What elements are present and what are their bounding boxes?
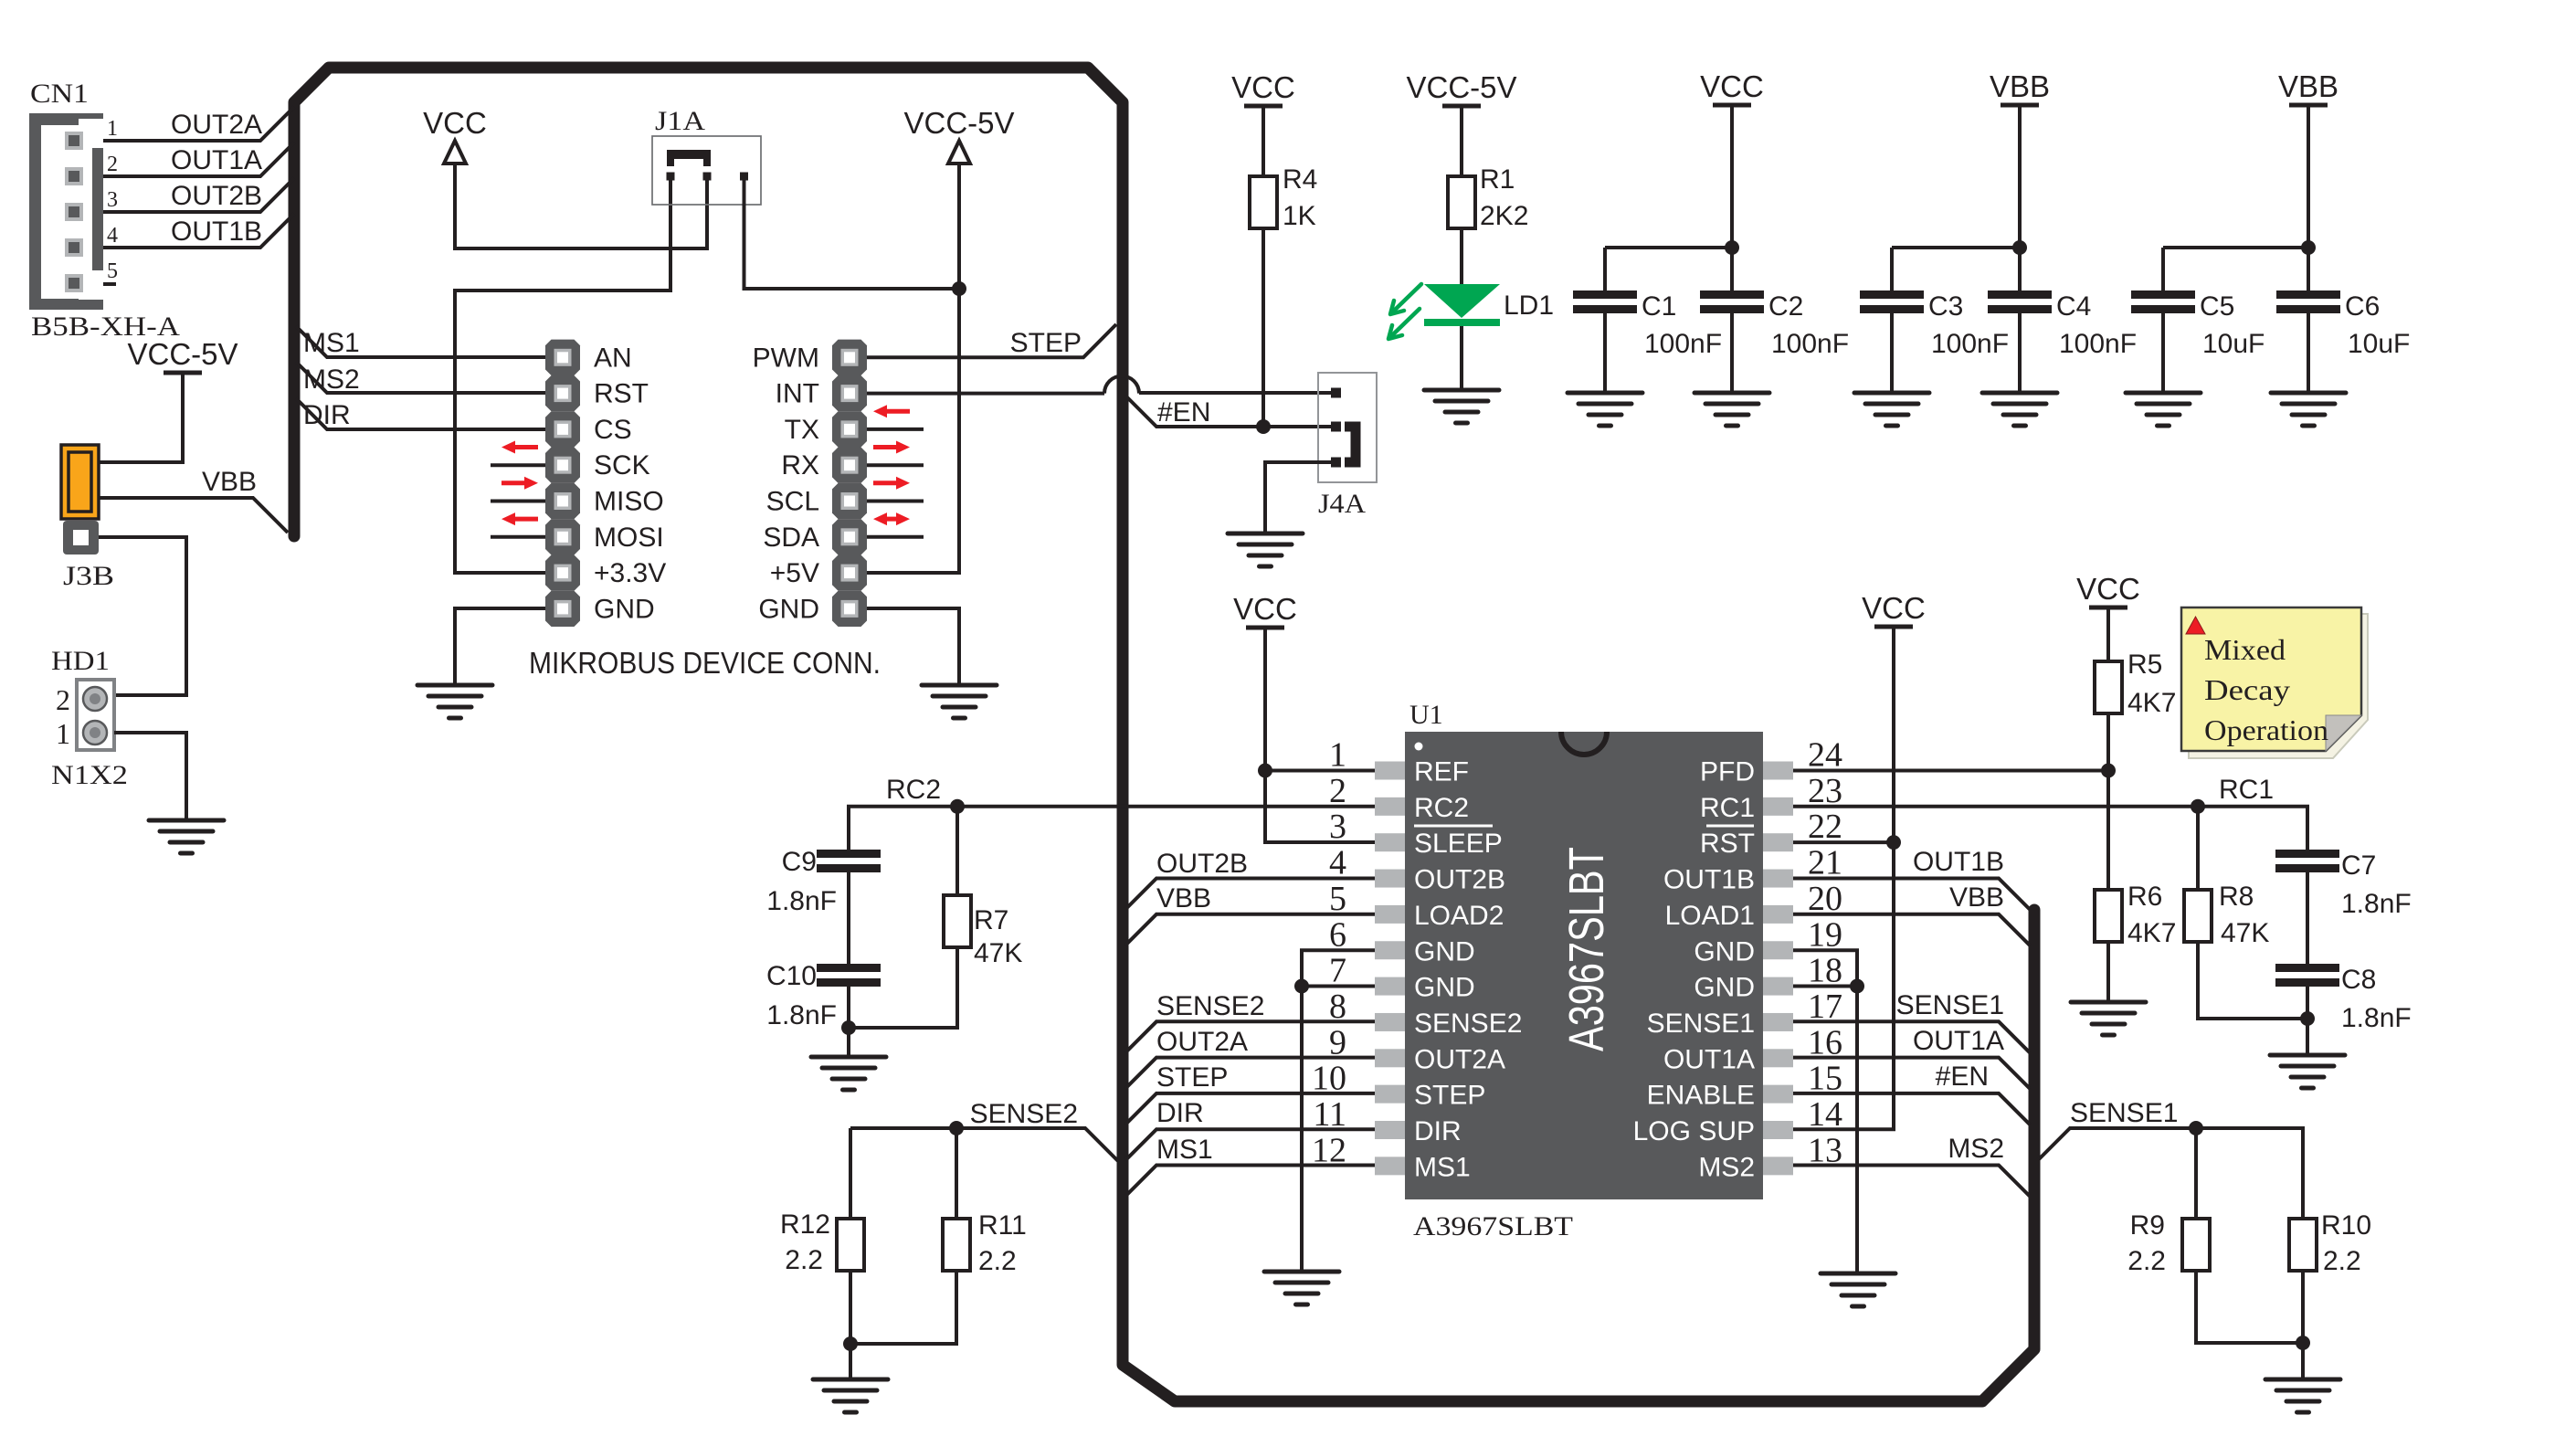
svg-text:RC2: RC2: [886, 775, 941, 805]
svg-text:SCK: SCK: [594, 450, 650, 481]
svg-text:A3967SLBT: A3967SLBT: [1413, 1211, 1573, 1241]
svg-text:OUT2B: OUT2B: [171, 181, 262, 211]
svg-text:R9: R9: [2130, 1210, 2165, 1241]
svg-text:RST: RST: [1700, 829, 1755, 859]
svg-text:HD1: HD1: [51, 646, 110, 676]
svg-text:10uF: 10uF: [2348, 329, 2410, 359]
svg-text:GND: GND: [594, 594, 655, 624]
svg-text:VBB: VBB: [2278, 69, 2338, 103]
svg-text:RST: RST: [594, 379, 649, 409]
svg-text:GND: GND: [1414, 936, 1475, 966]
svg-text:3: 3: [1329, 808, 1346, 846]
svg-text:OUT2A: OUT2A: [171, 110, 262, 140]
svg-text:LD1: LD1: [1504, 290, 1554, 321]
svg-text:J1A: J1A: [655, 106, 705, 136]
svg-text:4: 4: [107, 224, 118, 248]
svg-text:SENSE1: SENSE1: [1896, 990, 2004, 1020]
svg-text:REF: REF: [1414, 757, 1469, 787]
svg-text:VCC: VCC: [1862, 591, 1926, 625]
svg-text:19: 19: [1808, 915, 1842, 954]
svg-text:#EN: #EN: [1936, 1061, 1989, 1092]
svg-text:MS2: MS2: [1948, 1134, 2004, 1164]
svg-text:MS1: MS1: [1156, 1135, 1213, 1165]
svg-text:RX: RX: [781, 450, 819, 481]
svg-text:MS1: MS1: [303, 328, 360, 358]
svg-text:TX: TX: [785, 415, 819, 445]
svg-text:GND: GND: [1694, 973, 1755, 1003]
svg-text:2: 2: [56, 683, 70, 716]
svg-text:MS2: MS2: [1698, 1152, 1755, 1182]
svg-text:SENSE2: SENSE2: [1156, 991, 1264, 1021]
svg-text:OUT2B: OUT2B: [1156, 849, 1248, 879]
svg-text:OUT2A: OUT2A: [1156, 1027, 1248, 1057]
svg-text:J3B: J3B: [63, 561, 114, 591]
svg-text:#EN: #EN: [1157, 397, 1210, 428]
svg-text:C8: C8: [2341, 965, 2376, 995]
svg-text:R1: R1: [1480, 164, 1515, 195]
svg-text:CN1: CN1: [30, 79, 89, 109]
svg-text:100nF: 100nF: [1931, 329, 2009, 359]
svg-text:SENSE1: SENSE1: [2070, 1098, 2178, 1128]
svg-text:LOG SUP: LOG SUP: [1633, 1116, 1755, 1146]
svg-text:C6: C6: [2345, 291, 2380, 322]
svg-text:6: 6: [1329, 915, 1346, 954]
svg-text:R12: R12: [780, 1209, 830, 1240]
svg-text:R5: R5: [2127, 650, 2162, 680]
svg-text:100nF: 100nF: [1644, 329, 1722, 359]
svg-text:4K7: 4K7: [2127, 918, 2176, 948]
svg-text:GND: GND: [1694, 936, 1755, 966]
svg-text:CS: CS: [594, 415, 632, 445]
svg-text:STEP: STEP: [1156, 1062, 1228, 1093]
svg-text:GND: GND: [758, 594, 819, 624]
svg-text:OUT1B: OUT1B: [1663, 865, 1755, 895]
svg-text:2: 2: [1329, 772, 1346, 810]
svg-text:Mixed: Mixed: [2204, 633, 2286, 666]
svg-text:1: 1: [107, 117, 118, 141]
svg-text:VBB: VBB: [202, 467, 257, 497]
svg-text:+5V: +5V: [770, 558, 819, 588]
svg-text:STEP: STEP: [1414, 1081, 1485, 1111]
svg-text:1.8nF: 1.8nF: [766, 1000, 837, 1030]
svg-text:2.2: 2.2: [2323, 1246, 2361, 1276]
svg-text:100nF: 100nF: [2059, 329, 2137, 359]
svg-text:SCL: SCL: [766, 487, 819, 517]
svg-text:GND: GND: [1414, 973, 1475, 1003]
svg-text:Decay: Decay: [2204, 673, 2290, 706]
svg-text:SENSE1: SENSE1: [1647, 1009, 1755, 1039]
svg-text:MISO: MISO: [594, 487, 664, 517]
svg-text:2K2: 2K2: [1480, 201, 1528, 231]
svg-text:RC1: RC1: [2219, 775, 2274, 805]
svg-text:PWM: PWM: [753, 343, 819, 373]
svg-text:4: 4: [1329, 844, 1346, 882]
svg-text:LOAD1: LOAD1: [1665, 901, 1755, 931]
svg-text:2.2: 2.2: [785, 1245, 823, 1275]
svg-text:4K7: 4K7: [2127, 688, 2176, 718]
svg-text:DIR: DIR: [1414, 1116, 1462, 1146]
svg-text:PFD: PFD: [1700, 757, 1755, 787]
svg-text:ENABLE: ENABLE: [1647, 1081, 1755, 1111]
svg-text:SLEEP: SLEEP: [1414, 829, 1503, 859]
svg-text:VCC-5V: VCC-5V: [1406, 70, 1516, 104]
svg-text:24: 24: [1808, 736, 1842, 775]
svg-text:C4: C4: [2056, 291, 2091, 322]
svg-text:2.2: 2.2: [2127, 1246, 2166, 1276]
svg-text:SDA: SDA: [763, 523, 819, 553]
svg-text:VCC-5V: VCC-5V: [127, 337, 238, 371]
svg-text:C9: C9: [782, 847, 817, 877]
svg-text:20: 20: [1808, 880, 1842, 918]
svg-text:100nF: 100nF: [1771, 329, 1849, 359]
svg-text:DIR: DIR: [1156, 1098, 1204, 1128]
svg-text:OUT1A: OUT1A: [1663, 1044, 1755, 1074]
svg-text:MIKROBUS DEVICE CONN.: MIKROBUS DEVICE CONN.: [529, 646, 881, 680]
svg-text:SENSE2: SENSE2: [1414, 1009, 1522, 1039]
svg-text:R10: R10: [2321, 1210, 2371, 1241]
svg-text:INT: INT: [776, 379, 819, 409]
svg-text:10uF: 10uF: [2202, 329, 2265, 359]
svg-text:MS2: MS2: [303, 364, 360, 395]
svg-text:C1: C1: [1642, 291, 1676, 322]
svg-text:C5: C5: [2200, 291, 2234, 322]
svg-text:2: 2: [107, 153, 118, 176]
svg-text:VCC: VCC: [1231, 70, 1295, 104]
svg-text:OUT1B: OUT1B: [171, 217, 262, 247]
svg-text:OUT2A: OUT2A: [1414, 1044, 1505, 1074]
svg-text:VCC: VCC: [423, 106, 487, 140]
svg-text:VCC: VCC: [2076, 572, 2140, 606]
svg-text:21: 21: [1808, 844, 1842, 882]
svg-text:AN: AN: [594, 343, 632, 373]
svg-text:VCC: VCC: [1233, 592, 1297, 626]
svg-text:SENSE2: SENSE2: [970, 1099, 1078, 1129]
svg-text:5: 5: [1329, 880, 1346, 918]
svg-text:C3: C3: [1928, 291, 1963, 322]
svg-text:VCC-5V: VCC-5V: [903, 106, 1014, 140]
svg-text:U1: U1: [1409, 700, 1443, 730]
svg-text:VBB: VBB: [1949, 882, 2004, 913]
svg-text:RC2: RC2: [1414, 793, 1469, 823]
svg-text:VBB: VBB: [1990, 69, 2050, 103]
svg-text:3: 3: [107, 188, 118, 212]
svg-text:C10: C10: [766, 961, 817, 991]
svg-text:VBB: VBB: [1156, 883, 1211, 914]
svg-text:R6: R6: [2127, 882, 2162, 912]
svg-text:47K: 47K: [2221, 918, 2269, 948]
svg-text:2.2: 2.2: [978, 1246, 1017, 1276]
svg-text:1K: 1K: [1283, 201, 1316, 231]
svg-text:OUT1B: OUT1B: [1913, 847, 2004, 877]
svg-text:22: 22: [1808, 808, 1842, 846]
svg-text:7: 7: [1329, 952, 1346, 990]
svg-text:DIR: DIR: [303, 400, 351, 430]
svg-text:R8: R8: [2219, 882, 2254, 912]
svg-text:23: 23: [1808, 772, 1842, 810]
svg-text:1.8nF: 1.8nF: [2341, 889, 2412, 919]
svg-text:47K: 47K: [974, 938, 1022, 968]
svg-text:C2: C2: [1768, 291, 1803, 322]
svg-text:1: 1: [56, 717, 70, 750]
svg-text:J4A: J4A: [1318, 489, 1366, 519]
svg-text:VCC: VCC: [1700, 69, 1764, 103]
svg-text:A3967SLBT: A3967SLBT: [1559, 847, 1614, 1051]
svg-text:5: 5: [107, 259, 118, 283]
svg-text:C7: C7: [2341, 850, 2376, 881]
svg-text:LOAD2: LOAD2: [1414, 901, 1504, 931]
svg-text:R11: R11: [978, 1210, 1027, 1241]
svg-text:+3.3V: +3.3V: [594, 558, 666, 588]
svg-text:1.8nF: 1.8nF: [2341, 1003, 2412, 1033]
svg-text:MOSI: MOSI: [594, 523, 664, 553]
svg-text:OUT2B: OUT2B: [1414, 865, 1505, 895]
svg-text:1.8nF: 1.8nF: [766, 886, 837, 916]
svg-text:RC1: RC1: [1700, 793, 1755, 823]
svg-text:R4: R4: [1283, 164, 1317, 195]
svg-text:N1X2: N1X2: [51, 760, 128, 790]
svg-text:STEP: STEP: [1010, 328, 1082, 358]
svg-text:MS1: MS1: [1414, 1152, 1471, 1182]
svg-text:OUT1A: OUT1A: [171, 145, 262, 175]
svg-text:Operation: Operation: [2204, 713, 2328, 746]
svg-text:R7: R7: [974, 905, 1008, 935]
svg-text:18: 18: [1808, 952, 1842, 990]
svg-text:1: 1: [1329, 736, 1346, 775]
svg-text:OUT1A: OUT1A: [1913, 1026, 2004, 1056]
